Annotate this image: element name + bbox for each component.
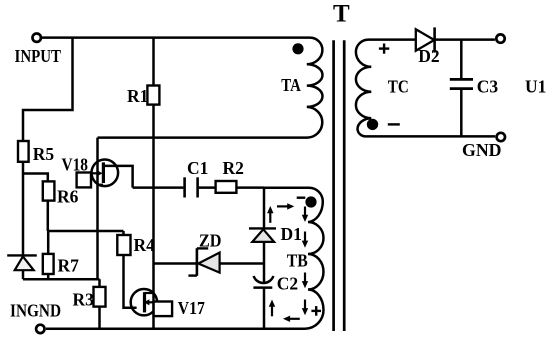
svg-text:R2: R2 bbox=[223, 158, 244, 178]
svg-text:R6: R6 bbox=[57, 187, 79, 207]
svg-text:T: T bbox=[333, 0, 350, 27]
svg-text:INGND: INGND bbox=[10, 301, 61, 321]
svg-text:R3: R3 bbox=[73, 290, 95, 310]
svg-text:V17: V17 bbox=[178, 298, 205, 318]
svg-text:TB: TB bbox=[287, 250, 308, 270]
svg-text:R7: R7 bbox=[58, 256, 80, 276]
svg-text:U1: U1 bbox=[525, 76, 546, 96]
svg-text:C3: C3 bbox=[477, 76, 499, 96]
svg-text:GND: GND bbox=[462, 140, 502, 160]
svg-text:R4: R4 bbox=[134, 235, 156, 255]
svg-text:INPUT: INPUT bbox=[15, 46, 62, 66]
svg-text:ZD: ZD bbox=[199, 231, 222, 251]
svg-text:C1: C1 bbox=[187, 158, 208, 178]
svg-text:TC: TC bbox=[388, 76, 409, 96]
svg-text:R1: R1 bbox=[127, 86, 148, 106]
svg-text:TA: TA bbox=[281, 75, 301, 95]
svg-text:D1: D1 bbox=[281, 224, 302, 244]
svg-text:C2: C2 bbox=[277, 273, 298, 293]
svg-text:D2: D2 bbox=[418, 46, 439, 66]
svg-text:R5: R5 bbox=[33, 144, 55, 164]
svg-text:V18: V18 bbox=[62, 154, 89, 174]
